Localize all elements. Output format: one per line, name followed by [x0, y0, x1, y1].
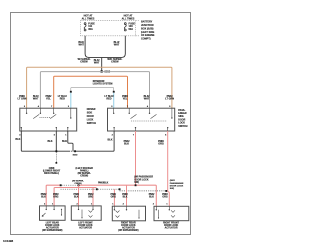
right rear door lock actuator M3 [112, 206, 145, 221]
svg-text:BLK: BLK [62, 140, 67, 143]
battery junction box (dashed) [80, 21, 135, 36]
svg-text:PNK/BLK: PNK/BLK [98, 182, 109, 184]
svg-text:KICK PANEL): KICK PANEL) [44, 172, 59, 175]
label BLK (left sw pin3) [15, 138, 20, 141]
svg-text:WHT: WHT [144, 98, 150, 101]
label BLK/WHT (right sw pin) [144, 95, 150, 101]
bracket for BJB label [136, 21, 140, 36]
fuse F1.03 50A [124, 23, 126, 31]
label LEFT ROCKER PANEL W/ SUPERCREW [76, 168, 94, 178]
svg-text:BLK: BLK [74, 197, 79, 199]
label W/ SUPERCREW (bus) [72, 181, 84, 185]
svg-text:BLK: BLK [108, 139, 113, 142]
wire PNK/BLK from right switch to bus [135, 131, 137, 185]
svg-text:WHT: WHT [94, 61, 100, 64]
label LT BLU/RED (left sw pin) [58, 95, 67, 101]
svg-text:LT GRN: LT GRN [165, 98, 174, 101]
label PASSENGER SIDE DOOR LOCK SWITCH [178, 109, 188, 128]
splice S318 [101, 70, 103, 72]
svg-text:ORG: ORG [53, 197, 58, 199]
pin numbers left switch top [24, 105, 70, 108]
svg-text:WHT: WHT [114, 44, 120, 47]
svg-text:ENGER: ENGER [178, 113, 187, 115]
label PNK/BLK (right sw pin7) [124, 140, 130, 146]
node splice bus1 left [60, 184, 62, 186]
svg-text:LOCK: LOCK [178, 123, 185, 125]
label BATTERY JUNCTION BOX [141, 21, 155, 41]
svg-text:PASS-: PASS- [178, 109, 185, 112]
svg-text:(W/ SUPERCREW): (W/ SUPERCREW) [118, 230, 138, 232]
node splice bus1 box2 [78, 184, 80, 186]
wire bus PNK/LT GRN (tan) [27, 67, 172, 108]
left switch internals [21, 108, 71, 131]
pin numbers right switch top [111, 105, 171, 108]
label FUSE 103 50A [129, 23, 136, 31]
svg-text:ALL TIMES: ALL TIMES [82, 17, 95, 20]
wire drop to box2 pin2 [78, 185, 80, 206]
node junction G ground [55, 150, 57, 152]
fuse F1.11 30A [84, 23, 86, 31]
label LEFT REAR DOOR LOCK ACTUATOR [42, 221, 62, 232]
wire bus BLK/WHT (gray) [40, 72, 149, 109]
label PNK/YEL (left sw pin) [45, 95, 51, 101]
label W/O SUPERCREW [107, 58, 122, 64]
svg-text:50A: 50A [129, 28, 134, 31]
label PNK/BLK (box4 pin3) [149, 194, 155, 199]
svg-text:SWITCH: SWITCH [87, 123, 97, 125]
svg-text:ORG: ORG [162, 197, 167, 199]
wire bus PNK/YEL (orange) [54, 76, 128, 108]
wire BLK from left sw pin5 [55, 131, 57, 151]
svg-text:ORG: ORG [111, 197, 116, 199]
wire drop to box2 pin1 [92, 188, 94, 206]
wire lock bus PNK/BLK [46, 185, 156, 206]
label W/ SUPERCREW [78, 58, 91, 64]
svg-text:ALL TIMES: ALL TIMES [122, 17, 135, 20]
label BLU/WHT (right feed) [114, 41, 120, 47]
label PNK/LT GRN (left sw pin) [18, 95, 27, 101]
label BLK/WHT (merged) [94, 59, 100, 65]
wire LT BLU/RED right [113, 93, 115, 109]
node splice bus1 feed [135, 184, 137, 186]
svg-text:S302: S302 [73, 154, 79, 156]
node splice S302 [74, 150, 76, 152]
svg-text:BLK: BLK [149, 197, 154, 199]
svg-text:BLK: BLK [48, 140, 53, 143]
svg-text:RED: RED [106, 98, 111, 101]
svg-text:PANEL): PANEL) [80, 170, 89, 173]
label RIGHT FRONT DOOR LOCK ACTUATOR [163, 222, 179, 229]
right switch internals [114, 108, 172, 131]
svg-text:30A: 30A [88, 28, 93, 31]
node splice bus2 right [165, 190, 167, 192]
label PNK/BLK (box1 pin2) [41, 194, 47, 199]
svg-text:LT GRN: LT GRN [18, 98, 27, 101]
wire fuse111 output BLK/WHT [85, 36, 101, 58]
wire BLK from left sw pin1 (jog) [68, 131, 73, 151]
svg-text:CREW: CREW [111, 60, 119, 63]
page frame [11, 13, 191, 235]
node splice right (interior lights) [113, 91, 115, 93]
label DRIVER SIDE DOOR LOCK SWITCH [87, 109, 97, 125]
pin numbers left switch bottom [19, 134, 67, 136]
connector C308 dashed stub [55, 152, 57, 162]
wire unlock bus dashed segment [61, 188, 120, 190]
svg-text:BLK: BLK [41, 197, 46, 199]
label BLK/WHT (left sw pin) [33, 95, 39, 101]
label W/ PASSENGER DOOR LOCK SW [134, 176, 153, 184]
svg-text:RED: RED [60, 98, 65, 101]
svg-text:CREW): CREW) [80, 176, 88, 178]
label RIGHT REAR DOOR LOCK ACTUATOR [118, 221, 138, 232]
svg-text:ORG: ORG [158, 142, 164, 145]
wire interior lights feed [71, 88, 114, 91]
label BLK/WHT (left feed) [78, 41, 84, 47]
wire fuse103 output BLU/WHT [101, 36, 125, 58]
label FUSE 111 30A [88, 23, 95, 31]
label PNK/ORG (right sw pin6) [158, 140, 164, 146]
svg-text:WHT: WHT [78, 44, 84, 47]
svg-text:DOOR: DOOR [87, 116, 94, 118]
passenger side door lock switch U2 [108, 108, 175, 131]
label LEFT FRONT DOOR LOCK ACTUATOR [78, 222, 93, 229]
label C308 LOWER RIGHT KICK PANEL [43, 168, 61, 175]
left rear door lock actuator M1 [40, 206, 66, 220]
svg-text:SW): SW) [170, 188, 175, 190]
label PNK/BLK (box2 pin2) [74, 194, 80, 199]
svg-text:BLK: BLK [123, 197, 128, 199]
svg-text:SWITCH: SWITCH [178, 126, 188, 128]
wire LT BLU/RED left [70, 93, 72, 109]
label PNK/BLK (box3 pin2) [122, 194, 128, 199]
node splice bus2 a [96, 188, 98, 190]
svg-text:DRIVER: DRIVER [87, 109, 96, 111]
label PNK/ORG (box1 pin1) [53, 194, 59, 199]
svg-text:ACTUATOR: ACTUATOR [165, 226, 178, 229]
label PNK/ORG (box2 pin1) [88, 194, 94, 199]
label W/O PASSENGER DOOR LOCK SW [170, 180, 184, 190]
svg-text:ACTUATOR: ACTUATOR [79, 226, 92, 229]
svg-text:SIDE: SIDE [178, 116, 184, 118]
svg-text:COMPT): COMPT) [141, 38, 151, 41]
wire drop to box3 pin2 [126, 185, 128, 206]
svg-text:DOOR: DOOR [178, 120, 185, 122]
svg-text:SIDE: SIDE [87, 112, 93, 114]
pin numbers right switch bottom [112, 134, 168, 136]
svg-text:BLK: BLK [124, 142, 129, 145]
svg-text:ORG: ORG [88, 197, 93, 199]
wire unlock bus PNK/ORG [54, 188, 96, 206]
wire ground bus BLK [21, 131, 114, 151]
svg-text:(W/ PASSENGER: (W/ PASSENGER [134, 176, 153, 179]
svg-text:LOCK: LOCK [87, 120, 94, 122]
svg-text:WHT: WHT [33, 98, 39, 101]
label INTERIOR LIGHTS SYSTEM [93, 80, 113, 86]
label LT BLU/RED (right sw pin) [104, 95, 113, 101]
left front door lock actuator M2 [71, 206, 101, 220]
node splice left (interior lights) [70, 91, 72, 93]
svg-text:(W/ SUPERCREW): (W/ SUPERCREW) [42, 230, 62, 232]
wire lock bus dashed segment [62, 184, 78, 186]
svg-text:1C1498: 1C1498 [3, 239, 14, 243]
wire drop to box3 pin1 [113, 189, 115, 206]
wire PNK/ORG from right switch to box4 [168, 131, 170, 206]
label HOT AT ALL TIMES (right) [122, 15, 135, 21]
wire ground dashes [70, 150, 74, 152]
svg-text:YEL: YEL [46, 98, 51, 101]
svg-text:BLK: BLK [15, 138, 20, 141]
label PNK/LT GRN (right sw pin) [165, 95, 174, 101]
svg-text:LIGHTS SYSTEM: LIGHTS SYSTEM [93, 83, 113, 86]
label PNK/YEL (right sw pin) [122, 95, 128, 101]
svg-text:PASSENGER: PASSENGER [170, 182, 184, 185]
wire merged feed to splice [101, 57, 103, 71]
label HOT AT ALL TIMES (left) [82, 15, 95, 21]
pin numbers actuators [44, 203, 168, 205]
svg-text:YEL: YEL [123, 98, 128, 101]
node splice bus2 b [119, 188, 121, 190]
label PNK/ORG (box3 pin1) [111, 194, 117, 199]
svg-text:SW): SW) [134, 182, 139, 184]
svg-text:CREW: CREW [80, 60, 88, 63]
label PNK/ORG (box4 pin1) [162, 194, 168, 199]
driver side door lock switch U1 [20, 108, 77, 131]
right front door lock actuator M4 [154, 206, 189, 220]
